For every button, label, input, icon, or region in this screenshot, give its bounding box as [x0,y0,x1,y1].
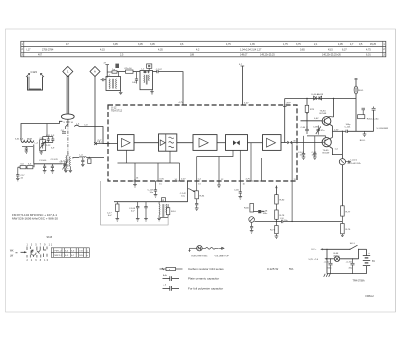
legend resistor symbol [160,267,183,271]
ground under FM can L1 [119,91,123,95]
svg-text:1,35: 1,35 [250,43,255,46]
AGC dropper to audio rail [187,181,189,202]
svg-text:1 3 5 7 9 11: 1 3 5 7 9 11 [27,244,54,246]
svg-text:TEA 5712: TEA 5712 [111,110,123,113]
ferrite rod axis (dash-dot) [65,119,68,129]
cap at FM can input [101,78,107,81]
coupling capacitor C107 [153,69,163,73]
output coupling diode pair [281,141,292,145]
Q1/Q2 emitter junction output wire [329,129,346,139]
wire DEM to A3 [248,142,263,144]
svg-text:+C-62: +C-62 [324,262,331,264]
FM front-end supply lead [104,63,110,78]
trimmer caps on rod axis [61,130,66,133]
svg-text:100p: 100p [346,124,352,126]
FM oscillator coil can L2 [140,71,153,90]
series capacitor C8 18u to right rail [276,218,342,223]
indicator lamp R88 PTC [334,249,359,261]
supply divider chain R80/R78/R71 [270,186,285,239]
pin 28F top edge with supply drop [283,99,291,143]
svg-text:6,01: 6,01 [366,54,371,57]
output transformer T2 [157,202,167,221]
svg-text:TR4 0708A: TR4 0708A [353,280,365,283]
legend ceramic capacitor symbol [163,274,180,281]
svg-text:For foil polyester capacitor: For foil polyester capacitor [188,287,223,291]
svg-text:x: x [169,269,170,271]
svg-text:MI75+R2-52k: MI75+R2-52k [348,163,362,165]
svg-text:1m: 1m [112,69,115,71]
table row 2 values [27,48,372,51]
wire MW input rail [21,121,62,140]
MW antenna coil taps [20,139,34,154]
wire input to A1 [96,143,118,145]
decoupling cap C103 10n with ground [298,136,305,160]
resistor R10 [160,204,177,217]
switch position table [51,248,89,257]
wire F1 to A2 [177,142,193,144]
svg-text:0,5V: 0,5V [160,179,165,181]
svg-text:140,25+25,25+26: 140,25+25,25+26 [322,54,341,57]
svg-text:28 F: 28 F [286,102,291,104]
FM input transformer can L1 [106,77,121,91]
svg-text:4,75: 4,75 [226,43,231,46]
Q1 collector from rail [333,99,335,118]
node A box [162,198,166,202]
svg-text:BU-1: BU-1 [359,90,365,92]
svg-text:3,95: 3,95 [113,43,118,46]
capacitor C7 on coupling coil [81,157,85,166]
resistor R3 junction [88,157,91,164]
resistor R66 chain at pin 10 [244,179,254,234]
svg-text:3,05: 3,05 [138,43,143,46]
svg-text:R-66: R-66 [244,208,250,210]
earphone jack BU [339,159,350,165]
amplifier block A2 [193,135,217,151]
resistor R2 [27,166,33,169]
junction dots on supply rail [306,98,307,99]
ground on output line [363,131,367,136]
capacitor C31 [46,135,51,143]
voltage table outline [21,41,386,57]
capacitor C2 470 with ground [51,159,59,173]
svg-text:5,4V: 5,4V [244,103,249,105]
IF filter block F1 [159,134,177,151]
lower-left AM rail [18,164,62,167]
svg-text:4,35: 4,35 [158,48,163,51]
electrolytic C63 [346,258,355,273]
audio amplifier block A3 [263,135,282,151]
LED D68 [254,210,269,215]
caps common rail under Q1 [307,135,326,137]
svg-text:Carbon resistor C24 series: Carbon resistor C24 series [188,267,224,271]
svg-text:4,7V: 4,7V [246,179,251,181]
IC U1 dashed outline [108,105,297,181]
resistor R5 47k [117,68,140,76]
trimmer capacitor C30 cluster [40,138,46,155]
table row 1 values [66,43,377,46]
Q1 base wire [301,120,322,122]
svg-text:BU-D: BU-D [360,140,366,142]
node diamond 1 (antenna) [63,67,73,77]
supply bottom rail with ground [324,249,367,277]
svg-text:2-22: 2-22 [46,145,51,147]
svg-text:A: A [94,70,96,74]
svg-text:R-71: R-71 [270,230,276,232]
svg-text:43,5: 43,5 [328,48,333,51]
svg-text:C-84: C-84 [301,127,307,129]
svg-text:0.125 W: 0.125 W [267,267,278,271]
svg-text:148,07: 148,07 [240,54,248,57]
resistor R1 [20,166,26,169]
pin numbers bottom edge [159,179,296,186]
supply entry arrow DV+ [312,248,351,251]
svg-text:0,6V: 0,6V [314,118,319,120]
svg-text:C1-500: C1-500 [39,160,47,162]
svg-text:149,25+25,25: 149,25+25,25 [260,54,275,57]
pin ticks on bottom dashed edge [133,180,294,182]
Q1 emitter to audio node [329,124,333,132]
svg-text:R-77: R-77 [346,211,352,213]
svg-text:407: 407 [38,54,43,57]
wire rod to IF pin [74,125,107,143]
MW coil right leg to rail [33,145,35,164]
wire A1 to F1 [134,142,159,144]
series capacitor C101 100p [345,124,374,133]
pin tick 2-4 left edge [97,141,110,144]
node diamond A (FM antenna) [90,67,100,77]
table row 3 values [38,54,371,57]
svg-text:WK: WK [10,250,14,252]
pin tick at right dashed edge [296,141,298,145]
svg-text:C2-470: C2-470 [51,159,59,161]
coupling coil L5 on rod [73,155,104,159]
electrolytic C62 [324,258,333,273]
electret microphone symbol [189,246,224,252]
svg-text:C-1?: C-1? [107,213,113,215]
diode pair D60 AA119 [312,93,324,100]
pin 13 volume pot R84 [188,179,205,211]
ferrite rod windings S1 [61,153,73,173]
svg-text:R-10: R-10 [171,211,177,213]
svg-text:4,7V: 4,7V [179,102,184,104]
ground under L2 [150,90,154,94]
svg-text:3,75: 3,75 [296,43,301,46]
svg-text:R-80: R-80 [280,200,286,202]
5.2V test arrow [309,258,335,261]
pin vertical to 5.4V test point [239,64,249,105]
svg-text:Plate ceramic capacitor: Plate ceramic capacitor [188,277,219,281]
capacitor C17 with ground [16,167,25,181]
audio low rail [114,201,188,203]
svg-text:BC549: BC549 [323,153,330,155]
resistor R77 [341,206,351,224]
electrolytic C108 [129,202,140,221]
pin ticks 9/10 on antenna lead [64,122,74,124]
resistor R2 divider [358,108,379,120]
power switch SK1 [349,243,366,250]
svg-text:MW 526-1606 kHz/OSC + 986-20: MW 526-1606 kHz/OSC + 986-20 [12,219,59,221]
svg-text:Lo-line: Lo-line [351,160,358,162]
svg-text:5-61: 5-61 [15,139,20,141]
svg-text:9-10: 9-10 [79,255,84,257]
svg-text:FM 1-2: FM 1-2 [55,250,63,252]
svg-text:R2(4+5+4k): R2(4+5+4k) [367,118,379,120]
amplifier block A1 [118,135,135,151]
wire to IC pin 4.7V [158,72,183,105]
svg-text:ELECTRET MIC: ELECTRET MIC [192,256,208,258]
pin tick at 4.7V top [181,104,185,106]
svg-text:C-65: C-65 [234,190,240,192]
svg-text:SK-B: SK-B [47,236,53,239]
svg-text:R-76: R-76 [346,229,352,231]
svg-text:R-78: R-78 [280,215,286,217]
svg-text:5-1 FM-MW: 5-1 FM-MW [377,128,389,130]
pin 12 ground [217,181,221,188]
capacitor C65 at pin 11 [234,181,242,199]
battery 6V [363,249,376,273]
right page edge line [395,29,397,312]
svg-text:4,15: 4,15 [100,48,105,51]
wire from diamond A down to plug junction [94,77,96,144]
svg-text:4,75: 4,75 [366,48,371,51]
svg-text:2 4 6 8 10: 2 4 6 8 10 [27,260,50,262]
svg-text:SK-1: SK-1 [350,243,356,245]
wire A2 to DEM [217,142,226,144]
capacitor C40 [132,72,138,84]
capacitor C1 500 with ground [39,160,47,173]
resistor R76 [341,224,351,237]
svg-text:100u: 100u [327,267,333,269]
resistor R4 on supply [107,69,117,73]
svg-text:188: 188 [190,54,195,57]
FM-MW switch feed vertical [354,78,364,131]
capacitor C123 shield bracket [26,70,44,90]
svg-text:1,75: 1,75 [283,43,288,46]
IC internal bottom bus 2 [197,143,292,222]
svg-text:VOLUME TOP: VOLUME TOP [215,256,230,258]
band switch mechanism [21,247,48,258]
pin 15 with electrolytic C105 [148,179,165,198]
svg-text:4,05: 4,05 [338,43,343,46]
svg-text:0,2V: 0,2V [181,179,186,181]
electrolytic C109 [144,202,148,221]
varicap box above L2 [147,64,152,71]
trimmer capacitor C6 [60,161,68,171]
svg-text:C-101: C-101 [345,127,352,129]
audio module outline wire [101,181,169,225]
top-right supply rail [285,98,356,100]
capacitor C84 47n [301,126,309,134]
Q2 collector down wire [330,147,343,155]
svg-text:3,05: 3,05 [150,43,155,46]
wire joining trimmer cluster [43,137,53,143]
svg-text:1,04+2,04 2,04 1,27: 1,04+2,04 2,04 1,27 [240,48,262,51]
svg-text:FM64-2: FM64-2 [366,295,375,298]
IC internal bottom bus 1 [118,150,180,181]
wire from diamond 1 down to ferrite rod (double lead) [66,76,68,114]
svg-text:L17: L17 [27,48,32,51]
svg-text:R-84: R-84 [200,196,206,198]
demodulator block D1 [226,135,248,151]
cap C88 100p with ground [312,136,318,160]
pin 16 with ground [133,178,139,188]
svg-text:61-8: 61-8 [27,139,32,141]
ferrite rod antenna ellipse [61,114,74,119]
headphone feed vertical [341,131,343,205]
svg-text:47k+50: 47k+50 [124,68,132,70]
svg-text:2756 2784: 2756 2784 [42,48,54,51]
svg-text:FM 87,5-104 MHz/OSC + 107,4-1: FM 87,5-104 MHz/OSC + 107,4-1 [12,215,58,217]
WK/LW selector labels [10,250,18,257]
svg-text:A: A [162,198,164,202]
svg-text:BC548: BC548 [320,113,327,115]
svg-text:+C-63: +C-63 [346,262,353,264]
svg-text:C-89: C-89 [313,127,319,129]
svg-text:0,65: 0,65 [300,48,305,51]
transistor Q2 BC549 [322,138,331,155]
resistor R73 [305,99,315,130]
svg-text:6,37: 6,37 [342,48,347,51]
wire audio out to Q2 base [292,142,322,144]
legend polyester capacitor symbol [163,285,180,291]
svg-text:5,2V +T-4: 5,2V +T-4 [309,259,319,261]
svg-text:1,3V: 1,3V [334,129,339,131]
svg-text:A.A: A.A [163,274,167,277]
ferrite bead label block [115,64,119,68]
decoupling capacitor C111 [372,107,389,132]
wire pot chain to divider node [254,220,276,222]
svg-text:MW 2-3: MW 2-3 [55,255,63,257]
capacitor C89 47n [313,126,325,135]
trimmer cluster feed from MW rail [46,124,48,137]
table row numbers [22,43,386,56]
svg-text:5%: 5% [289,267,294,271]
svg-text:45,25: 45,25 [370,43,377,46]
svg-text:6V: 6V [372,260,375,263]
capacitor C32 [51,135,55,143]
resistor R9 on audio rail [107,202,119,221]
svg-text:C123: C123 [31,70,38,74]
svg-text:DV +: DV + [312,249,318,251]
transistor Q1 BC548 [320,111,331,126]
